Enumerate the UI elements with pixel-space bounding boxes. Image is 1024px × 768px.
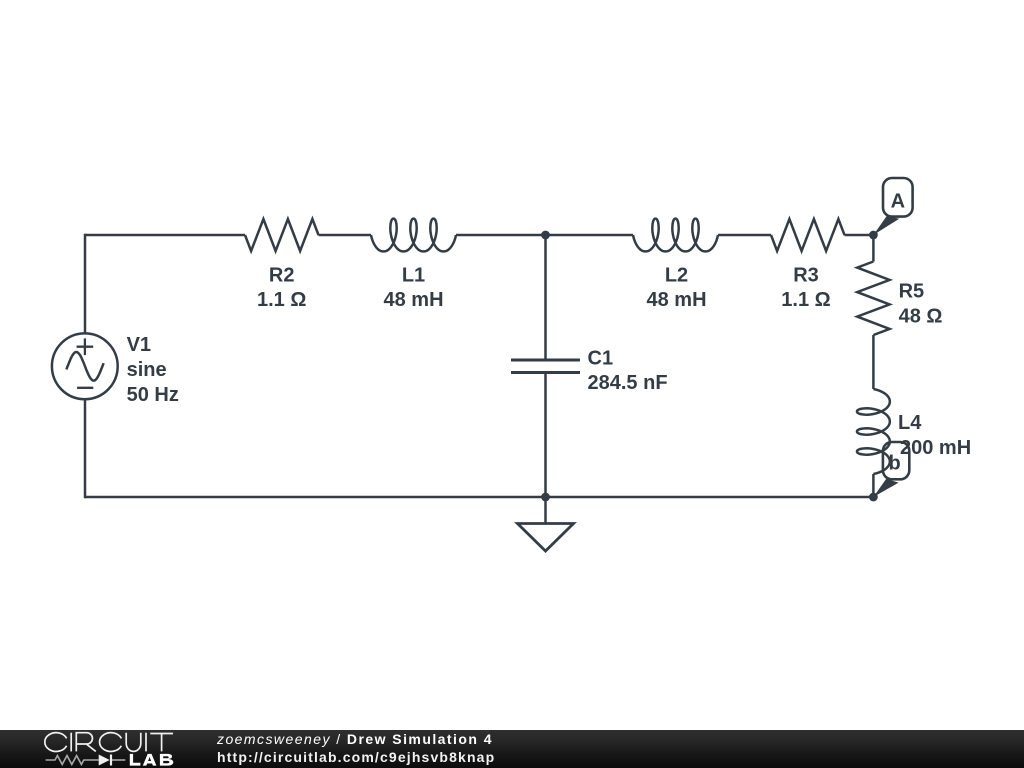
resistor R3 [771, 219, 845, 251]
svg-text:L2: L2 [665, 265, 688, 287]
value R2 1.1 ohm [257, 289, 306, 311]
value L4 200 mH [900, 437, 971, 459]
footer line 1: author / title [217, 731, 493, 747]
svg-text:284.5 nF: 284.5 nF [588, 372, 668, 394]
svg-text:b: b [888, 453, 900, 475]
wire R5 to L4 [872, 335, 875, 389]
inductor L2 [633, 219, 718, 252]
capacitor C1 bottom lead [544, 373, 547, 498]
resistor R2 [245, 219, 319, 251]
node b letter [888, 453, 900, 475]
wire between L2 and R3 [718, 234, 771, 237]
svg-text:50 Hz: 50 Hz [127, 384, 179, 406]
node A flag tail [873, 216, 899, 235]
label L1 name [402, 265, 425, 287]
voltage source V1 [52, 333, 118, 399]
label V1 name [127, 334, 151, 356]
junction node top (C1) [541, 231, 550, 240]
wire node to L2 [546, 234, 634, 237]
node A junction dot [869, 231, 878, 240]
wire left vertical upper [84, 234, 87, 334]
resistor R5 [857, 262, 889, 336]
junction node bottom (C1/ground) [541, 493, 550, 502]
svg-text:R2: R2 [269, 265, 295, 287]
wire between R2 and L1 [319, 234, 372, 237]
label R2 name [269, 265, 295, 287]
value C1 284.5 nF [588, 372, 668, 394]
svg-text:1.1 Ω: 1.1 Ω [781, 289, 830, 311]
svg-text:48 mH: 48 mH [383, 289, 443, 311]
svg-text:L4: L4 [898, 412, 922, 434]
wire between L1 and node [456, 234, 546, 237]
svg-text:48 Ω: 48 Ω [899, 306, 943, 328]
label L4 name [898, 412, 922, 434]
label R5 name [899, 281, 925, 303]
CircuitLab logo [40, 730, 185, 768]
wire node A down to R5 [872, 235, 875, 262]
capacitor C1 plates [511, 360, 580, 373]
node b flag tail [873, 479, 898, 497]
footer bar [0, 730, 1024, 768]
svg-text:sine: sine [127, 359, 167, 381]
ground stem [544, 497, 547, 524]
node A flag box [883, 178, 913, 217]
svg-text:A: A [891, 191, 905, 213]
label C1 name [588, 348, 614, 370]
label L2 name [665, 265, 688, 287]
value V1 50 Hz [127, 384, 179, 406]
node b flag box [883, 442, 909, 479]
footer line 2: url [217, 749, 495, 765]
svg-text:R5: R5 [899, 281, 925, 303]
value V1 sine [127, 359, 167, 381]
ground symbol [518, 524, 574, 552]
svg-text:R3: R3 [793, 265, 819, 287]
svg-text:V1: V1 [127, 334, 151, 356]
node b junction dot [869, 493, 878, 502]
value R3 1.1 ohm [781, 289, 830, 311]
svg-text:200 mH: 200 mH [900, 437, 971, 459]
inductor L4 [857, 389, 890, 474]
label R3 name [793, 265, 819, 287]
svg-text:L1: L1 [402, 265, 425, 287]
inductor L1 [371, 219, 456, 252]
wire L4 to node b [872, 474, 875, 497]
svg-text:48 mH: 48 mH [646, 289, 706, 311]
value L1 48 mH [383, 289, 443, 311]
wire R3 to node A [845, 234, 874, 237]
wire bottom horizontal [85, 496, 873, 499]
svg-text:C1: C1 [588, 348, 614, 370]
capacitor C1 top lead [544, 235, 547, 360]
wire left vertical lower [84, 399, 87, 498]
svg-text:1.1 Ω: 1.1 Ω [257, 289, 306, 311]
value R5 48 ohm [899, 306, 943, 328]
value L2 48 mH [646, 289, 706, 311]
wire top-left horizontal [85, 234, 245, 237]
